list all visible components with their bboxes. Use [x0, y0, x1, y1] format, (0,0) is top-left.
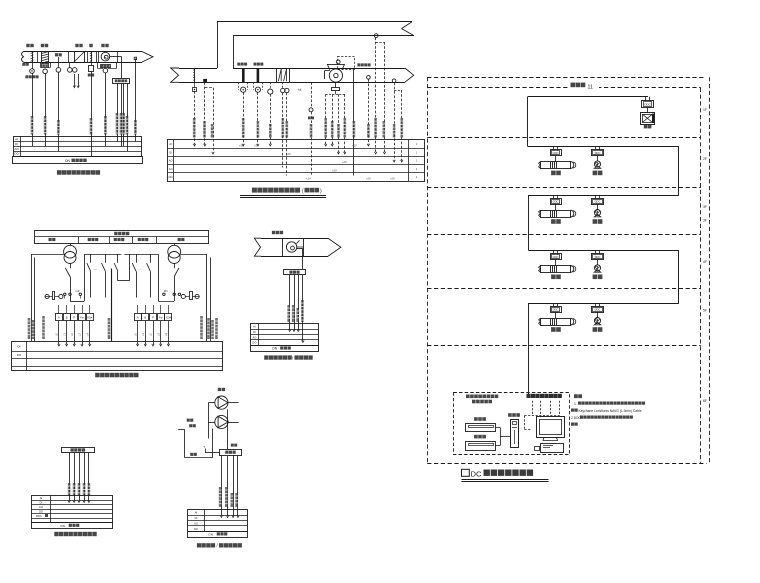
G6 pump suction header	[208, 402, 214, 404]
G7 floor dividing dashed lines	[427, 137, 701, 139]
G4 exhaust fan scroll	[286, 242, 296, 252]
G2 caption 空气处理机组监控图(二管制)	[252, 188, 257, 193]
G7 control room header text	[466, 395, 470, 399]
G7 control room dashed drops	[532, 401, 534, 416]
G2 supply air temp sensor at outlet	[392, 79, 396, 83]
G1 outdoor damper D1 with blade ticks	[32, 52, 34, 63]
G5 lighting panel box	[62, 448, 95, 453]
svg-text:Keychane LonWorks NAVG (1.3mm): Keychane LonWorks NAVG (1.3mm) Cable.	[579, 409, 643, 413]
G2 fan motor + belt	[335, 82, 337, 87]
svg-text:AO: AO	[39, 505, 43, 509]
G3 caption 照明配电节能控制原理图	[95, 373, 100, 378]
G7 notes header	[574, 394, 578, 398]
G7 floor A crossed AHU box	[647, 107, 649, 112]
svg-text:...: ...	[94, 266, 97, 271]
G4 exhaust duct body	[261, 238, 328, 240]
G7 UPS tower	[511, 420, 519, 448]
G7 floor C DDC units	[553, 195, 555, 198]
G3 breaker switch under T1	[70, 264, 72, 269]
G1 fresh-air inlet label	[22, 63, 25, 66]
G2 supply air pressure sensor	[367, 76, 371, 80]
G1 fan status sensor bracket	[97, 62, 99, 69]
svg-text:4F: 4F	[703, 260, 707, 264]
svg-text:AO: AO	[169, 167, 173, 171]
G6 pump P1	[215, 396, 228, 409]
G1 fan outlet connector wire	[110, 56, 122, 58]
G4 IO table	[251, 324, 319, 346]
svg-text:DN: DN	[65, 159, 70, 163]
G1 duct temperature label T.H	[55, 53, 58, 56]
G7 workstation base and keyboard	[543, 438, 558, 441]
G1 valve stem arrows	[74, 74, 76, 87]
svg-text:B: B	[144, 316, 146, 320]
G2 AHU IO table	[168, 140, 425, 182]
svg-text:+2V: +2V	[286, 152, 291, 156]
G3 center drop wire	[111, 269, 113, 342]
G3 right terminal strip boxes	[135, 314, 142, 321]
svg-text:DO: DO	[169, 175, 173, 179]
G6 DDC box	[220, 450, 242, 456]
svg-text:Fw: Fw	[159, 316, 163, 320]
G6 pump discharge stubs	[228, 402, 239, 404]
svg-text:DI: DI	[40, 501, 43, 505]
G1 end-of-duct sensor	[135, 59, 137, 63]
G7 floor A unit label	[644, 125, 648, 129]
G3 left terminal strip boxes	[56, 314, 63, 321]
svg-text:AI: AI	[15, 137, 18, 141]
svg-text:P: P	[152, 316, 154, 320]
svg-text:+2V: +2V	[332, 168, 337, 172]
G2 return duct sensor drops	[374, 34, 378, 38]
svg-text:1.: 1.	[574, 402, 577, 406]
G3 contact group A	[90, 254, 92, 263]
svg-text:B: B	[66, 316, 68, 320]
G3 T2 branch riser to bus	[158, 301, 174, 303]
svg-text:+2V: +2V	[352, 144, 357, 148]
G2 supply fan scroll housing	[329, 69, 342, 82]
svg-text:DO: DO	[252, 341, 256, 345]
G1 supply fan circle	[101, 52, 110, 61]
G4 DDC box	[284, 270, 306, 275]
svg-text:...: ...	[139, 266, 142, 271]
svg-text:2F: 2F	[703, 157, 707, 161]
G3 right feeder loop wire	[181, 254, 207, 256]
G3 right aux components row	[195, 294, 199, 298]
svg-text:DC: DC	[471, 470, 482, 479]
G6 wires to table	[221, 456, 223, 516]
G3 breaker switch under T2	[174, 264, 176, 269]
G1 coil section with diagonal	[75, 52, 85, 63]
G5 wires to table	[69, 453, 71, 502]
G2 mixing box sensor and drop	[194, 68, 196, 82]
svg-text:P: P	[73, 316, 75, 320]
G7 trunk bus floor B	[528, 146, 679, 148]
G2 supply-air label	[357, 63, 360, 66]
G7 printer link wires	[496, 427, 501, 429]
G1 damper actuator M	[91, 62, 93, 66]
svg-text:m#: m#	[76, 289, 80, 293]
G7 trunk bus floor C	[528, 195, 679, 197]
svg-text:XD#: XD#	[166, 316, 172, 320]
G7 trunk bus floor E	[528, 303, 679, 305]
G7 floor D DDC units	[553, 250, 555, 253]
G5 caption	[54, 532, 58, 536]
svg-text:DN: DN	[209, 533, 213, 537]
G4 fan wire to DDC box	[297, 248, 303, 250]
G1 fresh-air unit schematic: duct body	[24, 51, 143, 53]
G1 DDC IO table	[14, 137, 142, 157]
G3 DDC IO table	[12, 342, 223, 371]
G1 supply air temp sensor TE2	[58, 57, 60, 68]
G6 T sensor tap	[205, 449, 207, 453]
svg-text:DI: DI	[253, 330, 256, 334]
G3 left aux components row	[45, 294, 49, 298]
svg-text:+2V: +2V	[390, 177, 395, 181]
G6 pump label	[218, 388, 221, 391]
svg-text:DDC: DDC	[595, 200, 601, 204]
G3 left feeder loop wire	[31, 254, 64, 256]
svg-text:1F: 1F	[703, 108, 707, 112]
svg-text:DDC: DDC	[595, 151, 601, 155]
svg-text:DN: DN	[272, 347, 277, 351]
svg-text:DDC: DDC	[553, 200, 559, 204]
G6 pump P2	[215, 415, 228, 428]
svg-text:DDC: DDC	[644, 102, 651, 106]
G6 rotated wire labels	[219, 487, 222, 507]
svg-text:DO: DO	[39, 510, 43, 514]
G2 AHU supply duct body	[179, 68, 217, 70]
G7 printer 1	[466, 424, 496, 432]
G7 floor E DDC units	[553, 303, 555, 306]
G2 heating/cooling coil with NN glyph	[277, 69, 290, 83]
svg-text:11: 11	[588, 84, 593, 90]
svg-text:DDC: DDC	[553, 255, 559, 259]
G4 caption	[264, 355, 268, 359]
G3 lighting panel header box	[35, 231, 209, 244]
G7 printer 2	[466, 442, 496, 451]
svg-text:AO: AO	[194, 522, 198, 526]
svg-text:A: A	[137, 316, 139, 320]
svg-text:2.DDC: 2.DDC	[571, 416, 582, 420]
G3 transformer T2 (double circle)	[168, 245, 181, 258]
G1 rotated wire tag labels	[31, 116, 34, 135]
G6 IO table	[188, 510, 248, 532]
G7 shaft title 弱电井11	[569, 82, 599, 91]
svg-text:3F: 3F	[703, 205, 707, 209]
svg-text:5F: 5F	[703, 309, 707, 313]
G2 mixed-air temp sensor	[270, 82, 272, 89]
svg-text:DDC: DDC	[553, 151, 559, 155]
G7 shaft title band line	[427, 87, 701, 89]
G2 mixing box drop 2	[203, 79, 207, 82]
svg-text:DN: DN	[61, 524, 65, 528]
G7 riser outer dashed frame	[427, 77, 429, 464]
G7 floor A DDC controller	[645, 97, 647, 101]
svg-text:DDC: DDC	[36, 514, 42, 518]
G2 filter actuator/dP	[253, 82, 255, 89]
G4 wires to table	[289, 275, 291, 330]
G2 rotated wire tag labels above table	[193, 118, 196, 138]
svg-text:DO: DO	[14, 152, 19, 156]
svg-text:DDC: DDC	[553, 308, 559, 312]
svg-text:DDC: DDC	[595, 255, 601, 259]
svg-text:+2V: +2V	[306, 177, 311, 181]
svg-text:+2V: +2V	[366, 177, 371, 181]
G2 coil valve actuator circles	[281, 88, 285, 92]
svg-text:+#: +#	[298, 88, 302, 92]
G1 valve actuator circles	[68, 68, 73, 73]
G7 network device tag row	[527, 394, 531, 398]
G2 fan sensor main drop	[353, 69, 355, 175]
G7 operator workstation monitor	[537, 417, 565, 438]
G4 rotated wire labels	[287, 305, 290, 322]
G1 duct section dividers	[37, 52, 39, 63]
G1 outdoor T/H sensor TE1	[32, 62, 34, 69]
svg-text:DDC: DDC	[595, 308, 601, 312]
svg-text:DI: DI	[195, 516, 198, 520]
svg-text:AO: AO	[14, 147, 19, 151]
svg-text:DI: DI	[18, 345, 21, 349]
G2 mixing box drop 3	[213, 88, 215, 153]
G2 motor wiring bracket with 4 drops	[326, 94, 345, 96]
G3 contact group B	[136, 254, 138, 263]
G2 fan top sensor + dashed box	[336, 60, 340, 64]
svg-text:+2V: +2V	[239, 144, 244, 148]
G2 filter bar + label	[257, 68, 260, 82]
G3 distribution bus	[84, 254, 121, 256]
G7 trunk bus floor D	[528, 250, 679, 252]
G7 trunk bus floor A	[528, 96, 648, 98]
G1 DDC terminal box	[113, 79, 130, 84]
G1 wires from sensors down to IO table	[32, 73, 34, 146]
G3 center U link	[118, 280, 129, 282]
svg-text:AO: AO	[252, 335, 256, 339]
G1 caption 新风机组节能监控原理图	[57, 170, 62, 175]
svg-text:Fw: Fw	[80, 316, 84, 320]
svg-text:DI: DI	[169, 150, 172, 154]
svg-text:+2V: +2V	[342, 160, 347, 164]
G2 outlet drop 2	[401, 90, 403, 161]
G4 duct label	[272, 231, 275, 234]
svg-text:T: T	[203, 445, 205, 449]
G1 filter dP switch PdS	[40, 62, 42, 68]
G2 fresh-air damper actuator	[238, 82, 240, 89]
svg-text:DO: DO	[17, 353, 22, 357]
G4 fan section box	[282, 238, 284, 256]
G3 T1 branch riser to bus	[70, 301, 84, 303]
svg-text:AO: AO	[169, 159, 173, 163]
svg-text:6F: 6F	[703, 399, 707, 403]
G6 bracket labels	[189, 424, 192, 427]
G3 transformer T1 (double circle)	[64, 245, 77, 258]
G5 IO table	[32, 496, 113, 523]
G7 control room dashed enclosure	[454, 393, 570, 455]
svg-text:AI: AI	[253, 325, 256, 329]
svg-text:DI: DI	[15, 142, 18, 146]
G3 rotated feeder labels	[28, 318, 31, 339]
G2 AHU return-air duct upper run	[217, 21, 412, 23]
svg-text:AI: AI	[169, 142, 172, 146]
G7 caption DDC 楼控系统干线图	[462, 469, 470, 476]
G7 floor B DDC units	[553, 146, 555, 149]
G1 filter F (hatched)	[42, 52, 49, 63]
G1 damper D2 after coil	[91, 52, 93, 63]
svg-text:#m: #m	[164, 289, 169, 293]
svg-text:+2V: +2V	[254, 144, 259, 148]
G6 supply/return bracket	[178, 429, 185, 431]
G6 wire pumps to DDC	[227, 409, 229, 449]
G6 caption	[197, 543, 201, 547]
svg-text:AI: AI	[40, 496, 43, 500]
svg-text:3F: 3F	[703, 219, 707, 223]
G1 labels above duct	[26, 44, 29, 47]
svg-text:A: A	[58, 316, 60, 320]
svg-text:XD#: XD#	[87, 316, 93, 320]
svg-text:AI: AI	[195, 511, 198, 515]
svg-text:DO: DO	[194, 527, 198, 531]
G2 fresh-air damper bar + label	[242, 68, 245, 82]
